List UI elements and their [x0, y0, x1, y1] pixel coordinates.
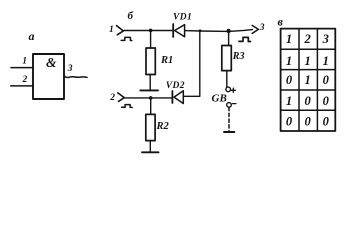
label а (part a) [29, 29, 35, 43]
wire input 2 to diode VD2 [125, 97, 172, 99]
svg-text:б: б [128, 10, 134, 22]
wire riser from VD2 anode to top net [199, 31, 201, 96]
label R2 [156, 121, 170, 132]
svg-text:в: в [278, 15, 284, 29]
svg-text:R3: R3 [232, 51, 245, 62]
gate function symbol & [46, 55, 57, 70]
wire VD1 to output arrow (top net) [185, 30, 253, 32]
pulse waveform glyph at input 2 [122, 105, 133, 108]
ground below R1 [140, 89, 158, 91]
svg-text:2: 2 [303, 32, 310, 46]
svg-text:1: 1 [22, 57, 27, 67]
pin label 2 (gate input 2) [22, 75, 28, 85]
svg-text:а: а [29, 29, 35, 43]
ground below R2 [142, 151, 159, 153]
svg-text:R1: R1 [160, 55, 173, 66]
svg-text:0: 0 [323, 94, 330, 108]
svg-text:1: 1 [286, 94, 292, 108]
resistor R2 [146, 98, 155, 152]
svg-text:1: 1 [304, 54, 310, 68]
truth table row 3: 0 1 0 [286, 73, 330, 87]
label 2 (input 2) [109, 93, 115, 103]
svg-text:2: 2 [109, 93, 115, 103]
label 3 (output) [259, 23, 265, 33]
truth table row 4: 1 0 0 [286, 94, 330, 108]
battery GB negative terminal [227, 103, 232, 108]
label 1 (input 1) [109, 25, 114, 35]
dashed wire GB negative to ground [228, 107, 230, 130]
pin label 1 (gate input 1) [22, 57, 27, 67]
truth table header row: 1 2 3 [286, 32, 329, 46]
label VD2 [166, 81, 185, 91]
diode VD2 (cathode bar + triangle) [172, 91, 183, 104]
input terminal 1 chevron [117, 26, 124, 35]
svg-text:&: & [46, 55, 57, 70]
battery GB positive terminal [226, 87, 231, 92]
wire VD2 anode to riser corner [183, 95, 200, 97]
svg-text:3: 3 [67, 64, 73, 74]
svg-text:R2: R2 [156, 121, 170, 132]
pulse waveform glyph at output 3 [239, 37, 251, 41]
svg-text:0: 0 [286, 115, 293, 129]
label в (part v) [278, 15, 284, 29]
diode VD1 (cathode bar + triangle) [173, 24, 184, 37]
label + (GB positive) [231, 88, 235, 92]
svg-text:1: 1 [286, 32, 292, 46]
truth table row 2: 1 1 1 [286, 54, 329, 68]
svg-text:VD1: VD1 [173, 12, 192, 22]
label VD1 [173, 12, 192, 22]
output arrow head [252, 25, 258, 33]
svg-text:VD2: VD2 [166, 81, 185, 91]
svg-text:0: 0 [304, 94, 311, 108]
wire gate output 3 (wavy) [64, 76, 87, 78]
truth table frame and grid [281, 29, 336, 131]
svg-text:0: 0 [286, 73, 293, 87]
svg-text:0: 0 [323, 73, 330, 87]
junction node B (riser from VD2) [199, 29, 202, 32]
wire gate input 2 [11, 85, 33, 87]
wire gate input 1 [11, 67, 33, 69]
junction node C (R3 tap) [226, 29, 230, 33]
pulse waveform glyph at input 1 [121, 37, 132, 40]
svg-text:1: 1 [286, 54, 292, 68]
label GB [212, 93, 227, 105]
label R1 [160, 55, 173, 66]
svg-text:0: 0 [323, 115, 330, 129]
wire input 1 to diode VD1 [124, 30, 173, 32]
svg-text:0: 0 [304, 115, 311, 129]
svg-text:1: 1 [304, 73, 310, 87]
label R3 [232, 51, 245, 62]
ground below GB [224, 131, 234, 133]
junction node A (input1 / R1 / VD1) [149, 29, 153, 33]
label − (GB negative) [233, 103, 236, 105]
svg-text:2: 2 [22, 75, 28, 85]
svg-text:GB: GB [212, 93, 227, 105]
svg-text:3: 3 [322, 32, 329, 46]
pin label 3 (gate output) [67, 64, 73, 74]
svg-text:1: 1 [109, 25, 114, 35]
truth table row 5: 0 0 0 [286, 115, 330, 129]
logic gate DD1 box [33, 54, 64, 99]
resistor R1 [146, 31, 155, 90]
svg-text:1: 1 [323, 54, 329, 68]
resistor R3 [222, 31, 232, 87]
svg-text:3: 3 [259, 23, 265, 33]
label б (part b) [128, 10, 134, 22]
junction node D (input2 / R2 / VD2) [149, 96, 153, 100]
input terminal 2 chevron [118, 93, 125, 102]
